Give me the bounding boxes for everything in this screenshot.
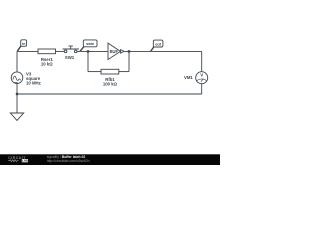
ground (10, 113, 23, 120)
footer bar (0, 154, 220, 165)
switch SW1 (63, 46, 79, 53)
node flag swin (80, 40, 97, 51)
node flag out (151, 40, 163, 51)
op-amp buffer U1 (BUF) (108, 43, 124, 60)
wire ground stem (16, 94, 18, 113)
footer logo zigzag (8, 160, 18, 162)
footer logo LAB box (22, 159, 28, 162)
node junction dot B (output/feedback) (128, 50, 130, 52)
wire feedback left vertical (87, 51, 89, 71)
resistor Rfb1 (101, 69, 119, 74)
wire right vertical to VM1 (201, 51, 203, 71)
wire VM1 bottom vertical (201, 84, 203, 94)
wire top-left horizontal (17, 50, 38, 52)
svg-text:100 kΩ: 100 kΩ (103, 81, 118, 86)
resistor Rser1 (38, 49, 56, 54)
wire bottom horizontal (17, 93, 202, 95)
wire feedback bottom left (88, 71, 101, 73)
wire buffer output to right corner (124, 50, 202, 52)
node flag in (17, 40, 26, 52)
node junction dot A (switch/feedback tap) (87, 50, 89, 52)
wire feedback right vertical (128, 51, 130, 71)
wire left vertical to V3 (16, 51, 18, 72)
wire switch to buffer input (77, 50, 108, 52)
svg-text:V: V (200, 73, 203, 78)
svg-text:SW1: SW1 (65, 55, 75, 60)
svg-text:http://circuitlab.com/c3sc62n: http://circuitlab.com/c3sc62n (47, 159, 90, 163)
wire feedback bottom right (119, 71, 129, 73)
voltmeter VM1 (196, 72, 208, 84)
svg-text:swin: swin (86, 42, 95, 46)
svg-text:out: out (155, 42, 162, 46)
svg-text:BUF: BUF (110, 49, 119, 54)
svg-text:VM1: VM1 (184, 75, 193, 80)
svg-text:LAB: LAB (22, 159, 28, 163)
svg-text:10 kΩ: 10 kΩ (41, 62, 53, 67)
voltage source V3 (11, 72, 23, 84)
node junction dot C (V3/ground/bottom wire) (16, 93, 18, 95)
svg-text:10 MHz: 10 MHz (26, 81, 41, 86)
wire resistor to switch (56, 50, 65, 52)
wire V3 bottom to ground junction (16, 84, 18, 95)
